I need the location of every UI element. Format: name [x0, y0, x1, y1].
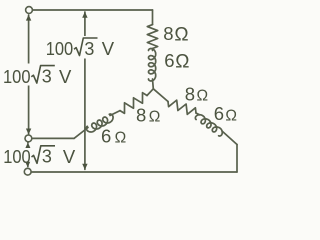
wire: right vertical [236, 145, 238, 173]
svg-text:3: 3 [84, 38, 94, 59]
terminal circle bottom-left [24, 168, 31, 175]
wire: top bus into branch [152, 10, 154, 25]
arrowhead E2 up [25, 142, 30, 148]
svg-text:V: V [59, 66, 72, 87]
svg-text:Ω: Ω [149, 109, 161, 126]
wire: bottom bus [31, 171, 237, 173]
arrowhead E2 down [25, 162, 30, 168]
wire: resistor to inductor (top branch) [152, 49, 154, 51]
arrowhead E1 up [26, 15, 31, 21]
value label 8 ohm down-right [185, 84, 208, 105]
value label 6 ohm down-right [214, 103, 237, 124]
voltage arrow line E3 (top bus to bottom bus) [84, 12, 86, 169]
svg-text:V: V [63, 146, 76, 167]
svg-text:100: 100 [3, 66, 31, 87]
svg-text:Ω: Ω [174, 24, 188, 45]
svg-text:Ω: Ω [175, 51, 189, 72]
value label 6 ohm down-left [101, 126, 126, 147]
value label 6 ohm top [164, 50, 189, 72]
wire: inductor to middle bus [74, 128, 88, 139]
wire: node to resistor (down-left branch) [147, 89, 153, 96]
terminal circle middle-left [25, 135, 32, 142]
wire: middle-left bus [32, 137, 74, 139]
svg-text:Ω: Ω [115, 129, 127, 146]
wire: top bus [32, 9, 152, 11]
label 100*sqrt3 V (middle-to-bottom line voltage) [3, 146, 76, 167]
svg-text:3: 3 [42, 65, 52, 86]
label 100*sqrt3 V (top-to-bottom line voltage) [46, 38, 115, 59]
wire: inductor to star node [152, 79, 155, 89]
svg-text:100: 100 [46, 38, 73, 59]
svg-text:Ω: Ω [225, 108, 237, 125]
resistor 8ohm (down-left branch) [120, 93, 147, 114]
svg-text:8: 8 [136, 105, 146, 126]
arrowhead E3 down [82, 164, 87, 170]
svg-text:8: 8 [163, 23, 173, 44]
terminal circle top-left [26, 7, 33, 14]
inductor 6ohm (down-left branch) [86, 114, 113, 132]
voltage arrow line E1 (top to middle terminal) [28, 15, 30, 134]
svg-text:6: 6 [214, 103, 224, 124]
voltage arrow line E2 (middle to bottom terminal) [27, 143, 29, 167]
svg-text:8: 8 [185, 84, 195, 105]
svg-text:V: V [102, 38, 115, 59]
wire: node to resistor (down-right branch) [153, 89, 168, 102]
wire: resistor to inductor (down-left branch) [110, 111, 120, 116]
inductor 6ohm (down-right branch) [195, 115, 222, 136]
wire: inductor to right corner [222, 131, 237, 145]
value label 8 ohm down-left [136, 105, 160, 126]
label 100*sqrt3 V (top-to-middle line voltage) [3, 65, 72, 86]
inductor 6ohm (top branch) [149, 49, 156, 82]
svg-text:3: 3 [42, 146, 52, 167]
svg-text:6: 6 [164, 50, 174, 71]
arrowhead E1 down [26, 129, 31, 135]
wire: resistor to inductor (down-right branch) [196, 113, 200, 115]
svg-text:Ω: Ω [197, 88, 209, 105]
resistor 8ohm (down-right branch) [168, 100, 196, 114]
value label 8 ohm top [163, 23, 188, 45]
arrowhead E3 up [82, 12, 87, 18]
svg-text:6: 6 [101, 126, 111, 147]
resistor 8ohm (top branch) [147, 25, 157, 49]
